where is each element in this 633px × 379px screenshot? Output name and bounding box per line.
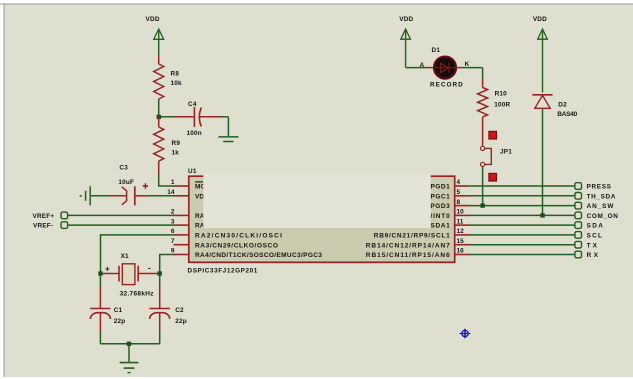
svg-text:16: 16: [457, 248, 465, 255]
svg-text:R10: R10: [495, 90, 508, 97]
wire pin 11 to terminal SDA: [470, 224, 575, 226]
svg-text:SDA: SDA: [587, 223, 604, 230]
svg-text:22p: 22p: [175, 318, 187, 325]
terminal SCL: [575, 232, 602, 240]
svg-text:TX: TX: [587, 242, 598, 249]
svg-text:7: 7: [171, 238, 175, 245]
svg-text:-: -: [148, 264, 151, 273]
svg-text:100R: 100R: [494, 101, 510, 108]
svg-text:D1: D1: [432, 47, 441, 54]
terminal PRESS: [575, 183, 612, 191]
svg-text:+: +: [105, 265, 110, 274]
IC U1 pin 16 (right stub): [455, 248, 470, 255]
resistor R8: [154, 64, 182, 99]
svg-text:VREF+: VREF+: [33, 213, 55, 220]
terminal VREF-: [33, 222, 68, 230]
svg-text:14: 14: [167, 189, 175, 196]
IC U1 pin 14 (left stub): [167, 189, 189, 196]
svg-text:11: 11: [457, 218, 464, 225]
erased label area: [203, 173, 430, 228]
sheet border left: [3, 4, 5, 377]
marker origin (blue): [460, 329, 471, 338]
svg-text:R8: R8: [171, 70, 180, 77]
svg-text:10uF: 10uF: [118, 179, 134, 186]
ground (C3 left, rotated): [80, 186, 91, 205]
svg-text:VREF-: VREF-: [33, 223, 53, 230]
wire node to C4: [161, 116, 176, 118]
IC U1 pin 12 (right stub): [455, 228, 470, 235]
IC U1 MCLR overline: [195, 181, 203, 183]
node ground rail: [127, 342, 131, 346]
svg-text:DSPIC33FJ12GP201: DSPIC33FJ12GP201: [188, 268, 258, 275]
svg-text:C2: C2: [175, 307, 184, 314]
marker JP1 pad bottom: [489, 173, 497, 181]
node crystal right: [158, 271, 162, 275]
svg-text:K: K: [465, 61, 470, 68]
svg-text:C1: C1: [114, 307, 123, 314]
IC U1 pin 15 (right stub): [455, 238, 470, 245]
wire JP1 to AN_SW line: [482, 167, 484, 206]
capacitor C1 22p: [90, 307, 125, 325]
IC U1 DSPIC33FJ12GP201 body: [189, 176, 455, 262]
svg-text:R9: R9: [172, 140, 181, 147]
svg-text:32.768kHz: 32.768kHz: [120, 290, 155, 297]
svg-text:C3: C3: [119, 165, 128, 172]
terminal AN_SW: [575, 202, 614, 210]
ground (C4): [218, 137, 238, 142]
svg-text:BAS40: BAS40: [557, 111, 577, 118]
node R8/R9/C4 junction: [157, 115, 161, 119]
svg-text:RB9/CN21/RP9/SCL1: RB9/CN21/RP9/SCL1: [374, 233, 450, 240]
wire ground rail: [100, 343, 159, 345]
svg-text:10: 10: [457, 209, 465, 216]
IC U1 pin 2 (left stub): [171, 209, 189, 216]
wire node to R9: [158, 117, 160, 127]
svg-text:22p: 22p: [114, 318, 126, 325]
wire pin 16 to terminal RX: [470, 254, 575, 256]
wire VREF+ to chip: [68, 214, 174, 216]
wire C2 to rail: [159, 313, 161, 344]
svg-text:A: A: [420, 62, 425, 69]
svg-text:15: 15: [457, 238, 465, 245]
svg-text:8: 8: [457, 199, 461, 206]
power VDD (middle): [399, 16, 413, 68]
marker JP1 pad top: [489, 131, 497, 139]
svg-text:5: 5: [457, 189, 461, 196]
IC U1 pin 10 (right stub): [455, 209, 470, 216]
power VDD (right): [533, 16, 547, 93]
svg-text:U1: U1: [188, 168, 197, 175]
wire pin 10 to terminal COM_ON: [470, 214, 575, 216]
svg-text:10k: 10k: [171, 80, 183, 87]
sheet border top: [0, 3, 633, 5]
wire R9 to pin1: [159, 161, 174, 186]
capacitor C2 22p: [150, 307, 187, 325]
svg-text:VDD: VDD: [533, 16, 547, 23]
svg-text:RA4/CND/T1CK/SOSCO/EMUC3/PGC3: RA4/CND/T1CK/SOSCO/EMUC3/PGC3: [195, 252, 322, 259]
svg-text:SCL: SCL: [587, 233, 603, 240]
node D2/COM_ON junction: [540, 213, 544, 217]
wire crystal to C2: [159, 276, 161, 308]
IC U1 pin 3 (left stub): [171, 218, 189, 225]
resistor R10 100R: [478, 88, 511, 117]
wire VDD to R8: [158, 56, 160, 64]
IC U1 pin 8 (right stub): [455, 199, 470, 206]
wire pin6 to crystal: [101, 235, 175, 274]
svg-text:RB14/CN12/RP14/AN7: RB14/CN12/RP14/AN7: [366, 242, 450, 249]
svg-text:6: 6: [171, 228, 175, 235]
terminal TX: [575, 241, 598, 249]
svg-text:RB15/CN11/RP15/AN6: RB15/CN11/RP15/AN6: [366, 252, 450, 259]
wire pin 12 to terminal SCL: [470, 234, 575, 236]
svg-text:RA2/CN30/CLKI/OSCI: RA2/CN30/CLKI/OSCI: [195, 233, 282, 240]
wire C1 to rail: [99, 313, 101, 344]
wire pin 5 to terminal TH_SDA: [470, 195, 575, 197]
IC U1 pin 1 (left stub): [171, 179, 189, 186]
IC U1 pin 11 (right stub): [455, 218, 470, 225]
svg-text:RECORD: RECORD: [430, 82, 463, 89]
IC U1 pin 4 (right stub): [455, 179, 470, 186]
svg-text:1k: 1k: [172, 150, 180, 157]
wire crystal to C1: [99, 276, 101, 308]
terminal TH_SDA: [575, 193, 616, 201]
ground (crystal): [120, 344, 139, 373]
IC U1 pin 7 (left stub): [171, 238, 189, 245]
svg-text:3: 3: [171, 218, 175, 225]
crystal X1 32.768kHz: [103, 253, 158, 297]
wire C3 to pin14: [136, 195, 174, 197]
terminal COM_ON: [575, 212, 618, 220]
svg-text:VDD: VDD: [146, 16, 160, 23]
wire pin 15 to terminal TX: [470, 244, 575, 246]
terminal SDA: [575, 222, 603, 230]
wire D2 to COM_ON line: [542, 108, 544, 215]
LED D1 RECORD: [420, 47, 470, 88]
svg-text:D2: D2: [558, 101, 567, 108]
capacitor C4: [187, 101, 202, 137]
svg-text:X1: X1: [121, 253, 129, 260]
node crystal left: [98, 271, 102, 275]
svg-text:AN_SW: AN_SW: [587, 203, 615, 210]
jumper JP1: [481, 146, 513, 166]
wire R8 to node: [158, 99, 160, 117]
resistor R9: [154, 127, 181, 161]
svg-text:C4: C4: [188, 101, 197, 108]
wire D1 cathode to R10: [456, 68, 483, 88]
svg-text:TH_SDA: TH_SDA: [587, 193, 616, 200]
IC U1 pin 5 (right stub): [455, 189, 470, 196]
terminal VREF+: [33, 212, 68, 220]
wire pin9 to crystal: [160, 255, 174, 274]
svg-text:12: 12: [457, 228, 465, 235]
wire pin 8 to terminal AN_SW: [470, 205, 575, 207]
svg-text:COM_ON: COM_ON: [587, 213, 619, 220]
svg-text:2: 2: [171, 209, 175, 216]
svg-text:9: 9: [171, 248, 175, 255]
capacitor C3 (10uF polarized): [118, 165, 148, 206]
wire pin 4 to terminal PRESS: [470, 185, 575, 187]
node JP1/AN_SW junction: [480, 203, 484, 207]
svg-text:4: 4: [457, 179, 461, 186]
wire ground to C3: [90, 195, 126, 197]
svg-text:RA3/CN29/CLKO/OSCO: RA3/CN29/CLKO/OSCO: [195, 242, 278, 249]
wire C4 to ground: [200, 117, 229, 136]
svg-text:PRESS: PRESS: [587, 184, 612, 191]
svg-text:JP1: JP1: [500, 148, 512, 155]
svg-text:1: 1: [171, 179, 175, 186]
IC U1 pin 9 (left stub): [171, 248, 189, 255]
wire VDD to D1 anode: [406, 67, 434, 69]
IC U1 pin 6 (left stub): [171, 228, 189, 235]
wire R10 to JP1: [482, 117, 484, 146]
diode D2 BAS40: [532, 95, 577, 118]
terminal RX: [575, 251, 599, 259]
power VDD (left): [146, 16, 406, 56]
svg-text:VDD: VDD: [399, 16, 413, 23]
wire VREF- to chip: [68, 224, 174, 226]
svg-text:100n: 100n: [187, 130, 202, 137]
